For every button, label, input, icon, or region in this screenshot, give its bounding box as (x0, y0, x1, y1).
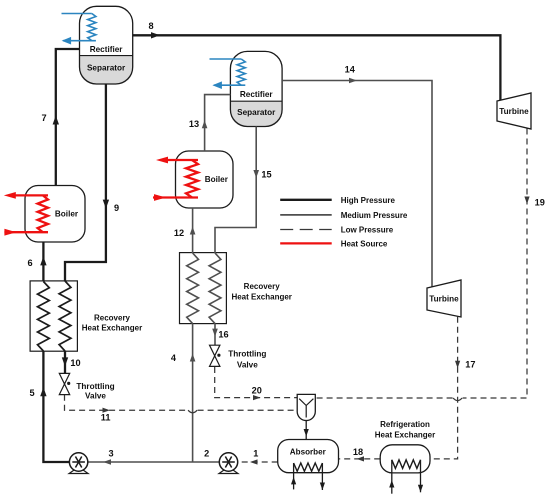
svg-text:Rectifier: Rectifier (90, 45, 124, 54)
coil HX2 left (streams 4-12) (187, 253, 199, 324)
svg-text:3: 3 (108, 449, 113, 459)
boiler B2 heat source inlet (red, bottom) (153, 196, 198, 198)
svg-text:2: 2 (204, 449, 209, 459)
wire stream 4: tee to HX2 (192, 324, 194, 462)
absorber cooling water inlet (293, 463, 295, 489)
svg-text:19: 19 (535, 197, 545, 207)
svg-text:High Pressure: High Pressure (341, 196, 396, 205)
svg-text:Throttling: Throttling (228, 350, 266, 359)
turbine T1 (497, 93, 531, 129)
svg-text:5: 5 (29, 388, 34, 398)
svg-text:12: 12 (174, 228, 184, 238)
rectifier U2 cooling water inlet (blue) (210, 58, 242, 60)
rectifier U2 cooling water outlet (blue) (214, 84, 246, 86)
svg-text:9: 9 (114, 203, 119, 213)
wire stream 14: rectifier U2 to turbine T2 (282, 81, 432, 288)
throttling valve V2 (210, 345, 221, 366)
rectifier U2 cooling coil (blue) (237, 59, 245, 85)
svg-text:Refrigeration: Refrigeration (380, 420, 430, 429)
svg-text:Heat Exchanger: Heat Exchanger (231, 293, 291, 302)
refrigeration heat exchanger label (375, 420, 435, 440)
refrigeration HX chilled water outlet (420, 460, 422, 493)
vessel U1: Rectifier/Separator (80, 6, 133, 84)
absorber vessel (278, 440, 339, 473)
wire stream 16: HX2 to throttling valve V2 (214, 324, 216, 346)
vessel U2: Rectifier/Separator (230, 51, 282, 126)
svg-text:Valve: Valve (85, 392, 106, 401)
wire stream 1: absorber to pump P2 (238, 461, 278, 463)
refrigeration heat exchanger vessel (380, 445, 430, 473)
svg-text:20: 20 (252, 385, 262, 395)
svg-text:14: 14 (345, 65, 356, 75)
rectifier U1 cooling water inlet (blue) (62, 13, 92, 15)
absorber cooling water outlet (321, 463, 323, 490)
wire stream 10: HX1 to throttling valve V1 (64, 351, 66, 373)
boiler B1 heat source coil (red) (38, 195, 48, 232)
svg-text:Separator: Separator (237, 108, 276, 117)
svg-text:4: 4 (171, 353, 177, 363)
svg-text:Throttling: Throttling (76, 382, 114, 391)
svg-text:Recovery: Recovery (244, 282, 281, 291)
svg-text:7: 7 (41, 113, 46, 123)
svg-text:13: 13 (189, 119, 199, 129)
coil HX1 left (streams 5-6) (38, 282, 50, 352)
throttling valve V2 label (228, 350, 266, 370)
recovery heat exchanger HX2 label (231, 282, 291, 302)
svg-text:Recovery: Recovery (94, 314, 131, 323)
svg-text:17: 17 (465, 360, 475, 370)
boiler B1 (25, 186, 85, 243)
wire stream 9: separator U1 bottom to HX1 (65, 84, 106, 281)
throttling valve V1 label (76, 382, 114, 401)
svg-text:18: 18 (353, 447, 363, 457)
svg-text:16: 16 (218, 329, 228, 339)
svg-text:1: 1 (253, 449, 258, 459)
wire stream 6: HX1 to boiler B1 (42, 242, 44, 282)
recovery heat exchanger HX1 label (82, 314, 142, 333)
mixer vessel (streams 11,19,20 join) (297, 394, 315, 420)
pump P2 (219, 453, 238, 474)
svg-text:15: 15 (261, 169, 271, 179)
wire stream 19: turbine T1 to mixer, hops over stream 17 (315, 129, 527, 399)
boiler B1 heat source outlet (red, top) (14, 194, 48, 196)
wire stream 17: turbine T2 to refrigeration HX (430, 317, 458, 459)
boiler B2 heat source coil (red) (186, 160, 198, 198)
svg-text:Heat Exchanger: Heat Exchanger (375, 431, 435, 440)
wire stream 20: valve V2 to mixer (215, 367, 298, 398)
legend: heat source line (280, 242, 332, 244)
pump P1 (69, 453, 88, 474)
svg-text:Separator: Separator (87, 63, 126, 72)
coil HX2 right (streams 15-16) (209, 253, 221, 324)
svg-text:Rectifier: Rectifier (240, 90, 274, 99)
wire mixer outlet to absorber (305, 421, 307, 440)
svg-text:6: 6 (27, 258, 32, 268)
svg-text:Medium Pressure: Medium Pressure (341, 211, 408, 220)
boiler B2 heat source outlet (red, top) (166, 159, 198, 161)
throttling valve V1 (59, 373, 70, 394)
absorber cooling coil (294, 463, 323, 471)
recovery heat exchanger HX1 box (30, 281, 77, 351)
legend: high pressure line (280, 199, 332, 201)
wire stream 7: boiler B1 top to rectifier U1 (56, 49, 80, 186)
svg-text:Low Pressure: Low Pressure (341, 226, 394, 235)
svg-text:11: 11 (101, 413, 111, 423)
wire stream 15: separator U2 bottom to HX2 (215, 127, 256, 254)
wire stream 8: rectifier U1 to turbine T1 (133, 35, 501, 100)
refrigeration HX coil (392, 460, 421, 469)
svg-text:Boiler: Boiler (55, 210, 79, 219)
coil HX1 right (streams 9-10) (59, 281, 71, 351)
recovery heat exchanger HX2 box (180, 253, 227, 324)
svg-text:Absorber: Absorber (290, 448, 327, 457)
legend: low pressure line (280, 229, 332, 231)
svg-text:10: 10 (70, 358, 80, 368)
svg-text:Boiler: Boiler (205, 175, 229, 184)
rectifier U1 cooling coil (blue) (88, 14, 96, 41)
svg-text:Heat Source: Heat Source (341, 240, 388, 249)
svg-text:Turbine: Turbine (499, 107, 529, 116)
boiler B2 (176, 151, 234, 208)
boiler B1 heat source inlet (red, bottom) (4, 231, 48, 233)
legend: medium pressure line (280, 214, 332, 216)
wire stream 13: boiler B2 to rectifier U2 (205, 95, 231, 151)
wire stream 18: refrigeration HX to absorber (339, 458, 381, 460)
svg-text:Heat Exchanger: Heat Exchanger (82, 324, 142, 333)
svg-text:Turbine: Turbine (429, 295, 459, 304)
turbine T2 (427, 280, 461, 317)
svg-text:8: 8 (148, 21, 153, 31)
wire stream 2-3: pump P2 outlet to pump P1 inlet (88, 461, 220, 463)
refrigeration HX chilled water inlet (391, 460, 393, 494)
wire stream 12: HX2 to boiler B2 (192, 208, 194, 253)
svg-text:Valve: Valve (237, 360, 258, 369)
wire stream 5: pump P1 to HX1 (43, 351, 69, 462)
rectifier U1 cooling water outlet (blue) (63, 40, 96, 42)
wire stream 11: valve V1 to mixer, hops over stream 4 (65, 395, 298, 410)
